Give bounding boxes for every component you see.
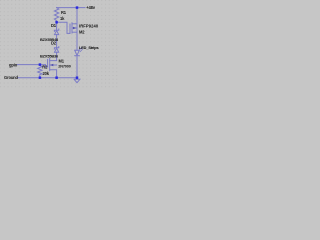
wire bottom rail [18,77,78,79]
junction node top rail [76,6,79,9]
node gate wire [57,22,70,33]
svg-text:Ground: Ground [4,75,19,80]
junction node M1 source [55,76,58,79]
svg-text:BZX55B48: BZX55B48 [40,37,59,42]
wire top rail [57,7,85,9]
svg-text:LED_Strips: LED_Strips [79,45,98,50]
junction node R1/D1/gate [55,21,58,24]
svg-text:+48v: +48v [86,5,95,10]
diode D1 [54,29,58,35]
wire R1 to D1 [56,21,58,30]
junction node gate/R2 [39,63,42,66]
svg-text:gpio: gpio [9,63,18,68]
svg-text:R1: R1 [61,10,67,15]
resistor R2 [38,65,42,78]
svg-text:2N7000: 2N7000 [58,65,70,69]
resistor R1 [54,8,58,21]
diode D2 [54,47,58,53]
svg-text:M1: M1 [59,59,65,64]
svg-text:D2: D2 [51,41,57,46]
wire M2 drain to LED [76,24,78,50]
M2 arrow [73,27,76,29]
wire D1 to D2 [56,35,58,48]
LED D3 [75,48,83,56]
svg-text:R2: R2 [42,65,48,70]
junction node ground [76,76,79,79]
svg-text:BZX55B36: BZX55B36 [40,53,59,58]
wire LED to ground [76,56,78,78]
junction node R2 bottom [39,76,42,79]
mosfet M2 [70,23,77,34]
ground [74,78,80,83]
transistor M1 [48,58,57,77]
wire D2 to M1 drain [50,52,57,60]
wire gpio to gate [17,65,48,67]
svg-text:D1: D1 [51,23,57,28]
wire right branch upper [76,8,78,24]
svg-text:M2: M2 [79,30,85,35]
svg-text:IRFP9240: IRFP9240 [79,24,99,29]
M1 arrow [50,64,53,66]
svg-text:20k: 20k [43,71,50,76]
